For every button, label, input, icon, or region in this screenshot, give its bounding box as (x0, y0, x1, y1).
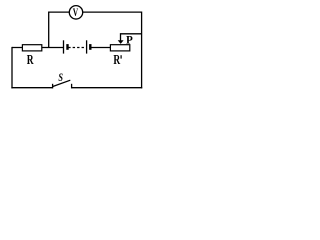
wire bottom right segment (72, 87, 143, 89)
voltmeter V circle (69, 6, 82, 19)
wire slider branch (right vertical to slider arrow) (121, 34, 142, 41)
svg-text:P: P (126, 35, 133, 47)
wire main row battery-to-rheostat segment (90, 47, 110, 49)
battery B1 dashed link between cells (68, 47, 86, 49)
battery B1 cell 1 long plate (+) (63, 40, 65, 53)
wire main row left segment (12, 47, 63, 49)
svg-text:V: V (73, 5, 79, 19)
switch S lever (53, 80, 71, 86)
wire top horizontal (junction A to top-right corner) (49, 11, 142, 13)
svg-text:R: R (113, 52, 120, 67)
battery B1 cell 2 short plate (-) (89, 44, 91, 50)
svg-text:S: S (58, 72, 63, 84)
rheostat R' body (110, 45, 129, 51)
wire left vertical side (11, 47, 13, 89)
wire right vertical (top-right corner down to bottom-right corner) (141, 12, 143, 89)
rheostat R' label prime mark (120, 55, 122, 58)
resistor R body (22, 45, 41, 51)
svg-text:R: R (27, 52, 34, 67)
switch S left terminal tick (52, 84, 54, 89)
wire left branch vertical (top wire down to junction A) (48, 12, 50, 48)
battery B1 cell 1 short plate (-) (66, 44, 68, 50)
slider arrowhead P (118, 40, 124, 44)
switch S right terminal tick (71, 84, 73, 89)
wire bottom left segment (11, 87, 52, 89)
battery B1 cell 2 long plate (+) (86, 40, 88, 53)
